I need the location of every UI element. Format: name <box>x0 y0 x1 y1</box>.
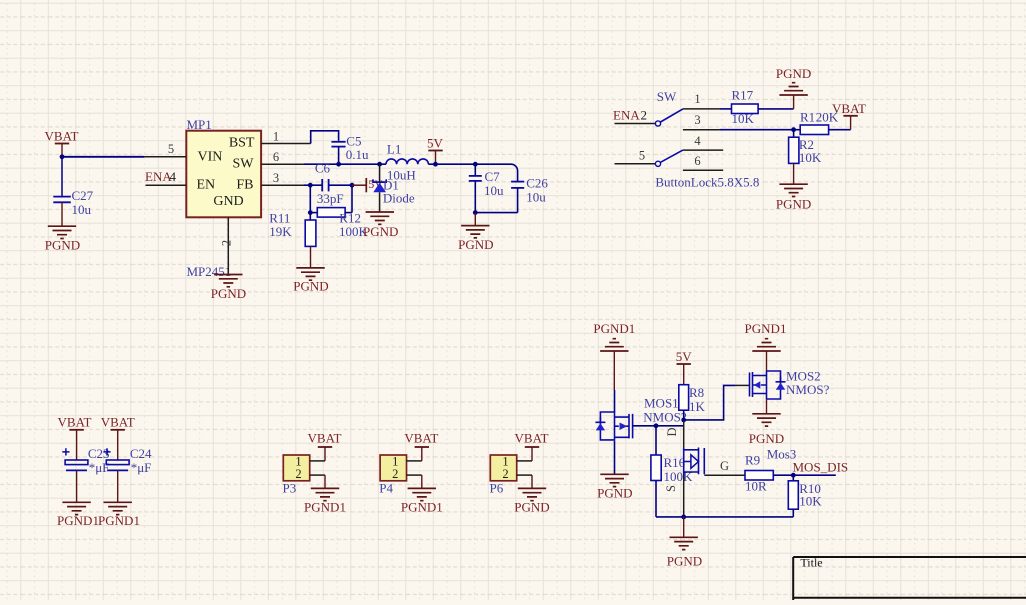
pins 1-2 of P6 <box>517 461 532 475</box>
wire node A down <box>309 185 311 220</box>
node 5V junction <box>433 162 438 167</box>
svg-text:PGND: PGND <box>363 224 398 239</box>
svg-text:NMOS?: NMOS? <box>643 409 687 424</box>
svg-text:FB: FB <box>236 178 253 193</box>
ground PGND above R17 <box>776 66 811 95</box>
svg-text:2: 2 <box>502 467 508 481</box>
capacitor C27 <box>53 188 93 217</box>
ground PGND under R2 <box>776 184 811 211</box>
svg-text:C26: C26 <box>526 175 548 190</box>
wire VBAT junction down to C27 <box>61 157 63 196</box>
svg-text:VBAT: VBAT <box>832 101 866 116</box>
svg-text:0.1u: 0.1u <box>346 147 369 162</box>
svg-text:10K: 10K <box>732 111 755 126</box>
power port VBAT at P6 <box>515 430 549 461</box>
wire 5V rail to C26 <box>475 164 517 181</box>
svg-text:19K: 19K <box>269 224 292 239</box>
ground PGND1 under P3 <box>304 475 346 514</box>
svg-text:4: 4 <box>170 169 177 184</box>
connector P6 <box>490 455 517 496</box>
resistor R8 <box>679 385 706 420</box>
pin 1 BST of MP1 <box>261 130 311 144</box>
pin 4 EN of MP1 with net label ENA <box>145 169 186 185</box>
wire C7 to ground <box>474 213 476 226</box>
svg-text:2: 2 <box>641 108 648 123</box>
svg-text:6: 6 <box>273 150 279 164</box>
svg-text:3: 3 <box>694 113 700 127</box>
svg-text:2: 2 <box>220 240 234 246</box>
pin 6 SW of MP1 <box>261 150 304 164</box>
svg-text:C24: C24 <box>130 446 152 461</box>
svg-text:P3: P3 <box>283 481 297 496</box>
svg-text:C7: C7 <box>485 169 501 184</box>
switch comment ButtonLock5.8X5.8 <box>655 174 759 189</box>
svg-text:R9: R9 <box>745 453 760 468</box>
svg-text:10u: 10u <box>484 183 504 198</box>
svg-text:PGND: PGND <box>514 499 549 514</box>
svg-text:VIN: VIN <box>198 150 223 165</box>
wire rail to ground <box>683 517 685 537</box>
svg-text:VBAT: VBAT <box>308 430 342 445</box>
wire MOS1 gate to R16 and Mos3 <box>633 425 684 427</box>
ground PGND under C27 <box>45 226 80 252</box>
svg-text:NMOS?: NMOS? <box>786 382 830 397</box>
pins 1-2 of P3 <box>310 461 325 475</box>
node VBAT/C27 junction <box>60 154 65 159</box>
svg-text:PGND: PGND <box>597 486 632 501</box>
svg-text:2: 2 <box>392 467 398 481</box>
resistor R1 <box>794 110 851 135</box>
transistor Mos3 <box>684 447 797 475</box>
svg-text:1: 1 <box>694 92 700 106</box>
node B junction <box>350 183 355 188</box>
capacitor C23 polarized <box>62 446 109 502</box>
transistor MOS2 <box>735 369 830 400</box>
ground PGND under MP1 <box>211 275 246 301</box>
svg-text:PGND: PGND <box>667 554 702 569</box>
capacitor C5 <box>331 133 369 162</box>
svg-text:ENA: ENA <box>613 108 640 123</box>
svg-text:C6: C6 <box>315 161 331 176</box>
wire R11 to ground <box>310 246 312 267</box>
capacitor C6 <box>315 161 344 206</box>
wire C5 to SW net <box>338 147 340 165</box>
svg-text:SW: SW <box>233 157 255 172</box>
svg-text:ENA: ENA <box>145 169 172 184</box>
ground PGND1 above MOS1 <box>593 321 635 390</box>
node divider junction <box>791 127 796 132</box>
svg-text:5V: 5V <box>427 135 444 150</box>
ground PGND under D1 <box>363 212 398 239</box>
svg-text:MP1: MP1 <box>187 117 212 132</box>
svg-text:ButtonLock5.8X5.8: ButtonLock5.8X5.8 <box>655 174 759 189</box>
wire pin1 to R17 <box>720 108 732 110</box>
power port 5V at feedback node <box>352 177 383 192</box>
ground PGND under R11 <box>293 268 328 294</box>
svg-text:PGND: PGND <box>776 66 811 81</box>
node C7 top junction <box>473 162 478 167</box>
capacitor C24 polarized <box>103 446 152 502</box>
svg-text:10K: 10K <box>799 494 822 509</box>
svg-text:PGND1: PGND1 <box>745 321 787 336</box>
svg-text:PGND1: PGND1 <box>593 321 635 336</box>
svg-text:PGND1: PGND1 <box>401 499 443 514</box>
wire R17 to PGND <box>758 95 794 109</box>
ground PGND1 under C23 <box>57 502 99 528</box>
svg-text:MOS_DIS: MOS_DIS <box>793 459 849 474</box>
ground PGND1 under P4 <box>401 475 443 514</box>
pin 3 of switch SW <box>683 113 720 130</box>
wire SW net <box>304 163 386 165</box>
wire bottom rail <box>656 516 793 518</box>
svg-text:3: 3 <box>273 171 279 185</box>
svg-text:R17: R17 <box>732 87 754 102</box>
svg-text:MOS1: MOS1 <box>644 396 679 411</box>
svg-text:SW: SW <box>657 89 677 104</box>
ground PGND under P6 <box>514 475 549 514</box>
svg-text:P4: P4 <box>379 481 393 496</box>
svg-text:VBAT: VBAT <box>404 430 438 445</box>
resistor R10 <box>788 475 822 517</box>
node C7 bottom junction <box>473 210 478 215</box>
svg-text:*μF: *μF <box>131 460 152 475</box>
svg-text:EN: EN <box>197 178 216 193</box>
resistor R17 <box>732 87 759 126</box>
svg-text:PGND: PGND <box>45 238 80 253</box>
svg-text:L1: L1 <box>387 142 401 157</box>
svg-text:PGND1: PGND1 <box>304 499 346 514</box>
pin 5 VIN of MP1 <box>144 142 186 157</box>
net label ENA with pin 2 of switch <box>613 108 647 123</box>
svg-text:10K: 10K <box>799 150 822 165</box>
svg-text:PGND1: PGND1 <box>57 513 99 528</box>
svg-text:G: G <box>720 459 729 473</box>
wire MOS2 source to ground <box>766 399 768 414</box>
svg-text:1K: 1K <box>689 399 706 414</box>
svg-text:VBAT: VBAT <box>515 430 549 445</box>
svg-text:R1: R1 <box>800 110 815 125</box>
svg-text:C27: C27 <box>72 188 94 203</box>
power port VBAT (input rail) <box>45 129 79 157</box>
svg-text:PGND: PGND <box>293 279 328 294</box>
node D1-SW junction <box>377 162 382 167</box>
resistor R2 <box>789 130 822 165</box>
connector P3 <box>283 455 310 496</box>
connector P4 <box>379 455 406 496</box>
resistor R9 <box>745 453 793 494</box>
svg-text:GND: GND <box>213 194 243 209</box>
svg-text:D: D <box>665 427 679 436</box>
power port 5V output <box>427 135 444 164</box>
wire R2 to ground <box>793 163 795 184</box>
svg-text:100K: 100K <box>664 469 694 484</box>
power port VBAT at C24 <box>101 415 135 460</box>
power port VBAT at C23 <box>58 415 92 460</box>
node A2 junction <box>308 210 313 215</box>
pin 2 GND of MP1 <box>220 217 234 274</box>
svg-text:4: 4 <box>694 134 701 148</box>
inductor L1 <box>386 142 428 183</box>
power port VBAT at P3 <box>308 430 342 461</box>
resistor R12 <box>310 185 368 239</box>
svg-text:PGND: PGND <box>458 237 493 252</box>
svg-text:P6: P6 <box>490 481 504 496</box>
pin G of Mos3 <box>704 459 745 475</box>
node R8 bottom junction <box>681 418 686 423</box>
diode D1 <box>373 164 415 212</box>
wire FB to node A <box>304 184 322 186</box>
pin 3 FB of MP1 <box>261 171 304 185</box>
transistor MOS1 drain pin <box>614 390 616 412</box>
wire C27 to ground <box>61 202 63 226</box>
svg-text:R16: R16 <box>664 455 686 470</box>
ground PGND1 under C24 <box>98 502 140 528</box>
power port 5V at R8 <box>676 349 693 385</box>
switch SW upper pole <box>655 89 683 126</box>
svg-text:5: 5 <box>168 142 174 156</box>
node bottom rail junction <box>681 515 686 520</box>
svg-text:VBAT: VBAT <box>45 129 79 144</box>
svg-text:10u: 10u <box>72 202 92 217</box>
node A FB junction <box>308 183 313 188</box>
svg-text:PGND: PGND <box>211 286 246 301</box>
power port VBAT at R1 <box>832 101 866 130</box>
pin 6 of switch SW <box>683 154 723 170</box>
node C5-SW junction <box>336 162 341 167</box>
wire ENA to switch common <box>615 123 656 125</box>
svg-text:1: 1 <box>273 130 279 144</box>
transistor Mos3 drain pin <box>665 420 684 450</box>
svg-text:33pF: 33pF <box>317 191 344 206</box>
node MOS_DIS junction <box>791 473 796 478</box>
svg-text:6: 6 <box>694 154 700 168</box>
net label MOS_DIS <box>793 459 849 475</box>
wire VBAT to MP1 VIN <box>62 156 144 158</box>
pin 1 of switch SW <box>683 92 720 109</box>
svg-text:VBAT: VBAT <box>101 415 135 430</box>
pin 5 of switch SW lower pole <box>615 149 683 167</box>
capacitor C26 <box>475 175 548 212</box>
transistor MOS1 <box>595 396 686 441</box>
wire MOS1 source to ground <box>614 441 616 474</box>
resistor R16 <box>651 426 693 517</box>
svg-text:5: 5 <box>639 149 645 163</box>
wire C6 to node B <box>329 184 352 186</box>
ground PGND under rail <box>667 537 702 568</box>
wire BST to C5 <box>311 131 339 144</box>
title block <box>793 556 1026 600</box>
wire R8 node to MOS2 gate <box>684 385 735 420</box>
svg-text:BST: BST <box>229 136 255 151</box>
svg-text:10u: 10u <box>526 189 546 204</box>
svg-text:S: S <box>664 485 678 492</box>
transistor Mos3 source pin <box>664 474 684 517</box>
power port VBAT at P4 <box>404 430 438 461</box>
svg-text:Diode: Diode <box>383 191 415 206</box>
pins 1-2 of P4 <box>407 461 422 475</box>
node R16 top junction <box>654 423 659 428</box>
ground PGND under MOS2 <box>749 414 784 446</box>
svg-text:PGND: PGND <box>749 431 784 446</box>
resistor R11 <box>269 211 316 247</box>
svg-text:VBAT: VBAT <box>58 415 92 430</box>
svg-text:PGND1: PGND1 <box>98 513 140 528</box>
svg-text:10R: 10R <box>745 479 767 494</box>
ground PGND1 above MOS2 <box>745 321 787 371</box>
svg-text:R8: R8 <box>689 385 704 400</box>
ground PGND under C7 <box>458 226 493 252</box>
wire L1 to C7 <box>428 163 475 165</box>
capacitor C7 <box>469 164 504 212</box>
svg-text:MP2451: MP2451 <box>187 264 232 279</box>
svg-text:5V: 5V <box>676 349 693 364</box>
svg-text:Title: Title <box>800 556 822 570</box>
op-amp U1 MP1 regulator body <box>186 117 261 279</box>
svg-text:PGND: PGND <box>776 196 811 211</box>
svg-text:2: 2 <box>295 467 301 481</box>
pin 4 of switch SW <box>683 134 723 150</box>
wire pin3 to divider junction <box>720 129 794 131</box>
ground PGND under MOS1 <box>597 474 632 500</box>
